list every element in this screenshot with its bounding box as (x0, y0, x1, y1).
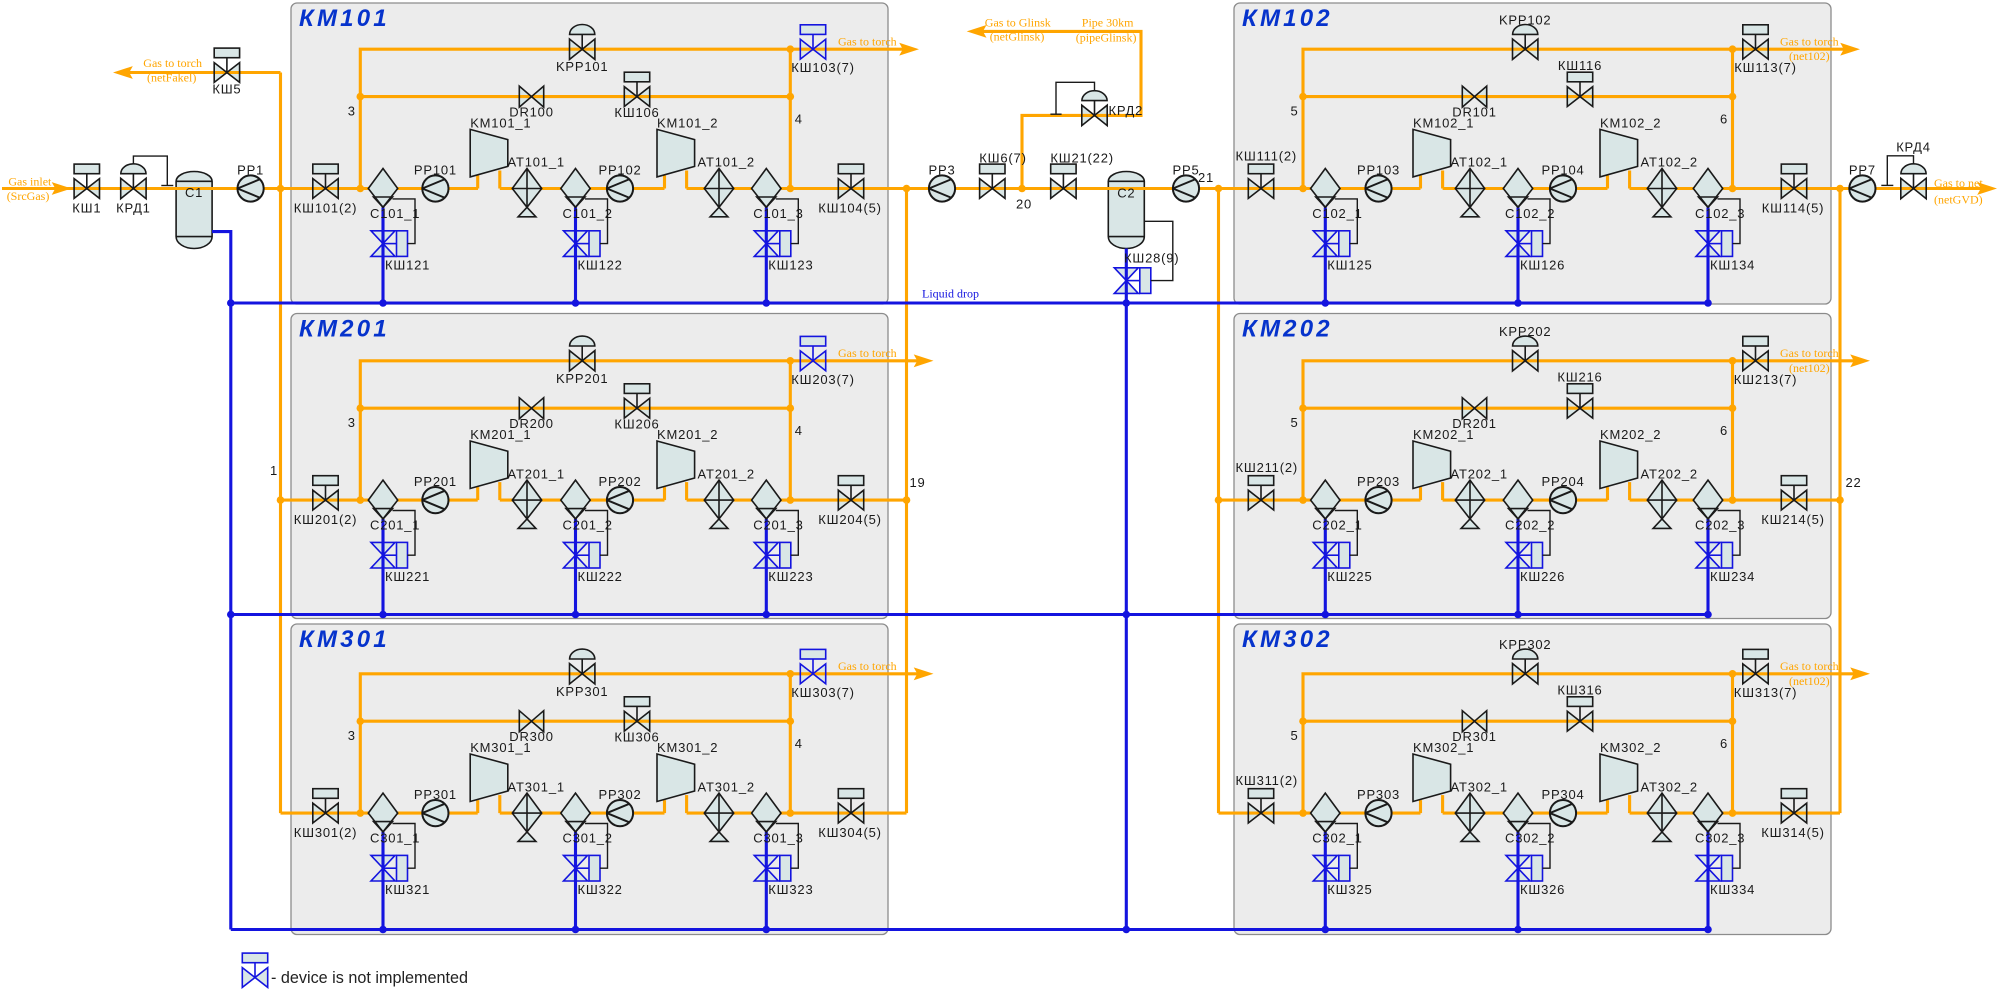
liquid drain from separator via КШ334 (1706, 832, 1709, 930)
node 3 junction on bypass (357, 404, 365, 412)
flow indicator PP203 (1365, 487, 1391, 513)
compressor KM202_2 (1600, 441, 1638, 489)
main gas line from inlet (2, 187, 478, 190)
control valve КРД2 (1082, 91, 1107, 126)
valve КШ116 (1567, 72, 1592, 106)
signal line C101_1 to КШ121 (393, 199, 416, 244)
signal line C302_1 to КШ325 (1335, 824, 1358, 869)
inlet manifold riser (node 1) (279, 73, 282, 814)
flow indicator PP102 (607, 175, 633, 201)
svg-text:КМ102: КМ102 (1242, 5, 1333, 32)
air cooler AT302_2 (1647, 793, 1676, 841)
svg-text:PP104: PP104 (1541, 163, 1584, 178)
signal line C101_3 to КШ123 (776, 199, 799, 244)
compressor KM101_1 (470, 129, 508, 177)
valve КШ121 body fill (371, 231, 395, 244)
signal line C302_3 to КШ334 (1718, 824, 1741, 869)
compressor KM101_2 (657, 129, 695, 177)
flow indicator PP5 (1173, 175, 1199, 201)
node 6 junction on torch line (1729, 670, 1737, 678)
valve КШ314(5) body fill (1781, 803, 1794, 823)
svg-text:20: 20 (1016, 197, 1032, 212)
svg-text:КШ214(5): КШ214(5) (1761, 512, 1824, 527)
svg-text:AT301_1: AT301_1 (508, 779, 565, 794)
main gas line to net (1630, 187, 1982, 190)
svg-text:KM101_2: KM101_2 (657, 116, 718, 131)
block frame КМ302 (1234, 624, 1831, 935)
valve KPP102 body fill (1513, 39, 1526, 59)
valve КШ313(7) (1743, 649, 1768, 683)
svg-text:KPP201: KPP201 (556, 371, 609, 386)
air cooler AT101_1 (512, 169, 541, 217)
valve КШ203(7) (not implemented) (800, 336, 825, 370)
recycle riser at node 5 (1303, 674, 1855, 813)
liquid drain from separator via КШ126 (1516, 207, 1519, 303)
svg-text:PP202: PP202 (598, 474, 641, 489)
drain junction (763, 611, 771, 619)
svg-text:C2: C2 (1117, 186, 1135, 201)
svg-text:6: 6 (1720, 112, 1728, 127)
valve КШ214(5) body fill (1781, 490, 1794, 510)
svg-text:PP103: PP103 (1357, 163, 1400, 178)
liquid drop header row 2 (231, 613, 1708, 616)
valve KPP302 body fill (1513, 664, 1526, 684)
valve KPP101 body fill (570, 39, 583, 59)
svg-text:КШ206: КШ206 (614, 417, 659, 432)
riser at node 4 (789, 674, 792, 813)
liquid collector from C2 via КШ28(9) (1125, 249, 1128, 930)
svg-text:KM102_2: KM102_2 (1600, 116, 1661, 131)
throttle valve DR101 (1462, 86, 1486, 107)
control valve КРД1 (121, 164, 146, 199)
node 4 junction on bypass (787, 717, 795, 725)
signal tap bar КРД1 (161, 185, 173, 187)
drain valve КШ321 (not implemented) (371, 855, 408, 881)
svg-text:КШ203(7): КШ203(7) (791, 372, 854, 387)
svg-text:КШ134: КШ134 (1710, 257, 1755, 272)
svg-text:КРД4: КРД4 (1896, 140, 1931, 155)
valve КШ21(22) body fill (1051, 179, 1064, 199)
liquid drain from separator via КШ322 (574, 832, 577, 930)
drain valve КШ325 (not implemented) (1313, 855, 1350, 881)
svg-text:PP201: PP201 (414, 474, 457, 489)
air cooler AT202_1 (1455, 480, 1484, 528)
svg-text:КШ321: КШ321 (385, 882, 430, 897)
valve КШ234 body fill (1696, 542, 1720, 555)
air cooler AT301_2 (704, 793, 733, 841)
svg-text:C101_3: C101_3 (753, 206, 803, 221)
recycle riser at node 3 (360, 674, 918, 813)
svg-text:C201_2: C201_2 (563, 518, 613, 533)
svg-text:PP102: PP102 (598, 163, 641, 178)
main gas line КМ101 (inlet to compressor KM101_1) (281, 187, 478, 190)
compressor KM301_1 outlet stub (498, 795, 501, 813)
compressor KM202_2 outlet stub (1628, 482, 1631, 500)
valve КРД1 body fill (121, 178, 134, 198)
netGlinsk arrow (967, 25, 987, 38)
svg-text:КШ28(9): КШ28(9) (1124, 251, 1179, 266)
svg-text:KM201_2: KM201_2 (657, 427, 718, 442)
gas-to-torch arrow КМ301 (914, 667, 934, 680)
drain valve КШ234 (not implemented) (1696, 542, 1733, 568)
compressor KM201_1 outlet stub (498, 482, 501, 500)
compressor KM302_1 (1413, 754, 1451, 802)
node 22 junction KM202 outlet (1836, 496, 1844, 504)
block frame КМ202 (1234, 314, 1831, 619)
valve DR200 body fill (519, 398, 531, 419)
valve КШ114(5) (1781, 164, 1806, 198)
valve КШ311(2) body fill (1248, 803, 1261, 823)
svg-text:22: 22 (1846, 475, 1862, 490)
valve КШ223 body fill (754, 542, 778, 555)
right outlet collector (node 22) (1838, 189, 1841, 814)
drain valve КШ126 (not implemented) (1506, 231, 1543, 257)
node 21 junction KM202 feed (1215, 496, 1223, 504)
drain valve КШ121 (not implemented) (371, 231, 408, 257)
drain junction (572, 611, 580, 619)
valve КШ301(2) body fill (313, 803, 326, 823)
flow indicator PP7 (1849, 175, 1875, 201)
valve КШ203(7) body fill (800, 351, 813, 371)
control valve KPP201 (570, 336, 595, 371)
svg-text:КМ201: КМ201 (299, 316, 390, 343)
valve КШ334 body fill (1696, 855, 1720, 868)
svg-text:КМ202: КМ202 (1242, 316, 1333, 343)
svg-text:5: 5 (1290, 728, 1298, 743)
signal line C2 to КШ28(9) (1144, 221, 1173, 280)
recycle riser at node 5 (1303, 49, 1845, 188)
bypass line with DR301 (1303, 720, 1733, 723)
signal line C201_1 to КШ221 (393, 511, 416, 556)
valve КШ5 (214, 48, 239, 82)
compressor KM301_1 inlet stub (476, 800, 479, 813)
valve КШ106 (624, 72, 649, 106)
svg-text:5: 5 (1290, 104, 1298, 119)
separator C201_3 (752, 480, 781, 519)
svg-text:КШ123: КШ123 (768, 257, 813, 272)
signal line C101_2 to КШ122 (585, 199, 608, 244)
compressor KM301_1 (470, 754, 508, 802)
svg-text:КШ234: КШ234 (1710, 569, 1755, 584)
liquid drop header row 1 (231, 301, 1708, 304)
valve КШ304(5) body fill (838, 803, 851, 823)
main gas line КМ301 (inlet to compressor KM301_1) (281, 812, 478, 815)
gas-to-torch arrow КМ101 (899, 43, 919, 56)
left outlet collector (node 19) (905, 189, 908, 814)
svg-text:КМ101: КМ101 (299, 5, 390, 32)
svg-text:- device is not implemented: - device is not implemented (271, 969, 468, 987)
flow indicator PP302 (607, 800, 633, 826)
drain junction (572, 926, 580, 934)
separator vessel C1 (176, 172, 212, 249)
control valve KPP101 (570, 24, 595, 59)
signal tap bar КРД4 (1881, 184, 1893, 186)
liquid header junction at C2 collector (1123, 299, 1131, 307)
svg-text:Gas to torch: Gas to torch (1780, 659, 1839, 673)
valve КШ201(2) body fill (313, 490, 326, 510)
svg-text:КРД1: КРД1 (116, 201, 151, 216)
liquid drain from separator via КШ321 (381, 832, 384, 930)
svg-text:KPP102: KPP102 (1499, 13, 1552, 28)
svg-text:KM301_2: KM301_2 (657, 740, 718, 755)
separator C102_2 (1503, 169, 1532, 208)
valve КШ221 body fill (371, 542, 395, 555)
node 4 junction on torch line (787, 357, 795, 365)
valve КШ134 body fill (1696, 231, 1720, 244)
bypass line with DR101 (1303, 95, 1733, 98)
block frame КМ101 (291, 3, 888, 304)
node 20 junction (1018, 185, 1026, 193)
svg-text:1: 1 (270, 463, 278, 478)
compressor KM101_1 inlet stub (476, 176, 479, 189)
flow indicator PP1 (238, 175, 264, 201)
valve KPP202 body fill (1513, 351, 1526, 371)
compressor KM201_2 outlet stub (685, 482, 688, 500)
svg-text:AT202_1: AT202_1 (1451, 466, 1508, 481)
signal tap bar КРД2 (1050, 113, 1061, 115)
svg-text:КМ302: КМ302 (1242, 626, 1333, 653)
svg-text:KPP301: KPP301 (556, 684, 609, 699)
liquid drain from separator via КШ234 (1706, 519, 1709, 615)
svg-text:AT301_2: AT301_2 (698, 779, 755, 794)
node 19 junction on main line (903, 185, 911, 193)
valve КШ304(5) (838, 789, 863, 823)
flow indicator PP204 (1550, 487, 1576, 513)
liquid drain from separator via КШ223 (765, 519, 768, 615)
liquid drain from separator via КШ325 (1324, 832, 1327, 930)
svg-text:Gas to torch: Gas to torch (1780, 35, 1839, 49)
separator C302_2 (1503, 793, 1532, 832)
main gas line КМ102 (to collector) (1630, 187, 1840, 190)
svg-text:DR101: DR101 (1452, 105, 1496, 120)
svg-text:AT201_2: AT201_2 (698, 466, 755, 481)
air cooler AT302_1 (1455, 793, 1484, 841)
svg-text:КШ325: КШ325 (1327, 882, 1372, 897)
svg-text:(net102): (net102) (1789, 674, 1830, 688)
valve КШ322 body fill (564, 855, 588, 868)
svg-text:C302_2: C302_2 (1505, 831, 1555, 846)
recycle riser at node 5 (1303, 361, 1855, 500)
svg-text:КШ6(7): КШ6(7) (979, 151, 1026, 166)
signal line C202_2 to КШ226 (1528, 511, 1551, 556)
svg-text:AT201_1: AT201_1 (508, 466, 565, 481)
separator C201_1 (368, 480, 397, 519)
bypass line with DR100 (360, 95, 790, 98)
valve КШ206 (624, 384, 649, 418)
flow indicator PP304 (1550, 800, 1576, 826)
gas-to-torch arrow КМ202 (1850, 354, 1870, 367)
svg-text:КШ323: КШ323 (768, 882, 813, 897)
drain valve КШ125 (not implemented) (1313, 231, 1350, 257)
separator C302_1 (1311, 793, 1340, 832)
svg-text:КШ225: КШ225 (1327, 569, 1372, 584)
throttle valve DR200 (519, 398, 543, 419)
node 1 junction on main line (277, 185, 285, 193)
air cooler AT201_1 (512, 480, 541, 528)
control valve KPP102 (1513, 24, 1538, 59)
main gas line КМ302 (inlet to compressor KM302_1) (1219, 812, 1421, 815)
riser at node 4 (789, 361, 792, 500)
svg-text:AT302_2: AT302_2 (1641, 779, 1698, 794)
svg-text:PP304: PP304 (1541, 787, 1584, 802)
valve КШ101(2) (313, 164, 338, 198)
separator C301_2 (561, 793, 590, 832)
bypass line with DR200 (360, 407, 790, 410)
main gas line КМ202 (to collector) (1630, 499, 1840, 502)
valve КШ303(7) body fill (800, 664, 813, 684)
node 5 junction on bypass (1299, 717, 1307, 725)
flow indicator PP3 (929, 175, 955, 201)
valve КШ123 body fill (754, 231, 778, 244)
compressor KM302_1 inlet stub (1419, 800, 1422, 813)
svg-text:KM202_2: KM202_2 (1600, 427, 1661, 442)
valve КШ323 body fill (754, 855, 778, 868)
node 4 junction on main line (787, 496, 795, 504)
liquid drop header row 3 (231, 928, 1708, 931)
compressor KM202_1 inlet stub (1419, 487, 1422, 500)
compressor KM201_2 inlet stub (663, 487, 666, 500)
valve КШ6(7) body fill (980, 179, 993, 199)
valve КШ314(5) (1781, 789, 1806, 823)
svg-text:3: 3 (348, 415, 356, 430)
main gas line КМ201 (inlet to compressor KM201_1) (281, 499, 478, 502)
svg-text:Gas to torch: Gas to torch (838, 346, 897, 360)
block frame КМ102 (1234, 3, 1831, 304)
valve KPP201 body fill (570, 351, 583, 371)
liquid drain from separator via КШ222 (574, 519, 577, 615)
svg-text:4: 4 (795, 736, 803, 751)
compressor KM202_1 outlet stub (1441, 482, 1444, 500)
compressor KM301_2 outlet stub (685, 795, 688, 813)
drain valve КШ223 (not implemented) (754, 542, 791, 568)
liquid header junction at C2 collector (1123, 926, 1131, 934)
flow indicator PP202 (607, 487, 633, 513)
recycle riser at node 3 (360, 49, 904, 188)
svg-text:КШ121: КШ121 (385, 257, 430, 272)
svg-text:AT202_2: AT202_2 (1641, 466, 1698, 481)
valve КШ101(2) body fill (313, 179, 326, 199)
svg-text:KPP302: KPP302 (1499, 637, 1552, 652)
svg-text:КШ104(5): КШ104(5) (818, 201, 881, 216)
svg-text:KPP202: KPP202 (1499, 324, 1552, 339)
svg-text:PP3: PP3 (929, 162, 956, 177)
liquid drain from separator via КШ122 (574, 207, 577, 303)
compressor KM201_2 (657, 441, 695, 489)
svg-text:КШ101(2): КШ101(2) (294, 201, 357, 216)
air cooler AT102_1 (1455, 169, 1484, 217)
svg-text:(net102): (net102) (1789, 361, 1830, 375)
node 5 junction on bypass (1299, 93, 1307, 101)
valve КШ306 body fill (624, 711, 637, 731)
svg-text:КШ113(7): КШ113(7) (1734, 60, 1797, 75)
drain valve КШ221 (not implemented) (371, 542, 408, 568)
compressor KM302_1 outlet stub (1441, 795, 1444, 813)
separator C102_1 (1311, 169, 1340, 208)
svg-text:(netGVD): (netGVD) (1934, 193, 1983, 207)
svg-text:КШ111(2): КШ111(2) (1236, 149, 1298, 164)
svg-text:DR100: DR100 (509, 105, 553, 120)
control valve KPP301 (570, 649, 595, 684)
valve КШ213(7) (1743, 336, 1768, 370)
node 4 junction on bypass (787, 404, 795, 412)
svg-text:PP204: PP204 (1541, 474, 1584, 489)
throttle valve DR300 (519, 711, 543, 732)
liquid drain from separator via КШ134 (1706, 207, 1709, 303)
svg-text:КШ311(2): КШ311(2) (1236, 773, 1299, 788)
main gas line КМ302 (between compressors) (1443, 812, 1608, 815)
valve КШ303(7) (not implemented) (800, 649, 825, 683)
compressor KM102_2 inlet stub (1606, 176, 1609, 189)
branch to Glinsk via КРД2 (982, 31, 1142, 188)
valve legend valve body fill (242, 968, 255, 988)
compressor KM301_2 inlet stub (663, 800, 666, 813)
valve legend valve (not implemented) (242, 953, 267, 987)
valve КШ222 body fill (564, 542, 588, 555)
valve КРД2 body fill (1082, 105, 1095, 125)
main interstation line KM101 to KM102 (687, 187, 1421, 190)
svg-text:KM302_2: KM302_2 (1600, 740, 1661, 755)
valve КШ103(7) (not implemented) (800, 25, 825, 59)
svg-text:PP7: PP7 (1849, 162, 1876, 177)
liquid drain from separator via КШ226 (1516, 519, 1519, 615)
gas inlet arrow (52, 182, 72, 195)
signal line C201_3 to КШ223 (776, 511, 799, 556)
block frame КМ201 (291, 314, 888, 619)
svg-text:КШ103(7): КШ103(7) (791, 60, 854, 75)
valve КШ125 body fill (1313, 231, 1337, 244)
svg-text:C202_1: C202_1 (1312, 518, 1362, 533)
valve КШ204(5) (838, 476, 863, 510)
main gas line КМ102 (inlet to compressor KM102_1) (1219, 187, 1421, 190)
svg-text:4: 4 (795, 112, 803, 127)
node 3 junction on main line (357, 496, 365, 504)
signal line C301_3 to КШ323 (776, 824, 799, 869)
node 3 junction on main line (357, 185, 365, 193)
liquid collector from C1 (212, 232, 231, 930)
liquid header junction at C1 collector (227, 611, 235, 619)
riser at node 4 (789, 49, 792, 188)
svg-text:Gas to Glinsk: Gas to Glinsk (985, 15, 1051, 29)
separator C202_1 (1311, 480, 1340, 519)
svg-text:C302_1: C302_1 (1312, 831, 1362, 846)
block frame КМ301 (291, 624, 888, 935)
main gas line КМ102 (between compressors) (1443, 187, 1608, 190)
air cooler AT101_2 (704, 169, 733, 217)
svg-text:C1: C1 (185, 185, 203, 200)
valve КШ301(2) (313, 789, 338, 823)
valve КШ1 (74, 164, 99, 198)
node 4 junction on main line (787, 809, 795, 817)
compressor KM302_2 inlet stub (1606, 800, 1609, 813)
compressor KM102_1 inlet stub (1419, 176, 1422, 189)
liquid drain from separator via КШ323 (765, 832, 768, 930)
compressor KM102_2 outlet stub (1628, 171, 1631, 189)
air cooler AT301_1 (512, 793, 541, 841)
separator vessel C2 (1108, 172, 1144, 249)
node 19 junction KM201 outlet (903, 496, 911, 504)
separator C101_2 (561, 169, 590, 208)
liquid drain from separator via КШ125 (1324, 207, 1327, 303)
svg-text:3: 3 (348, 728, 356, 743)
flow indicator PP104 (1550, 175, 1576, 201)
flow indicator PP201 (422, 487, 448, 513)
valve КШ311(2) (1248, 789, 1273, 823)
valve КШ201(2) (313, 476, 338, 510)
svg-text:(net102): (net102) (1789, 49, 1830, 63)
drain junction (1704, 611, 1712, 619)
valve КШ5 body fill (214, 63, 227, 83)
valve КШ326 body fill (1506, 855, 1530, 868)
